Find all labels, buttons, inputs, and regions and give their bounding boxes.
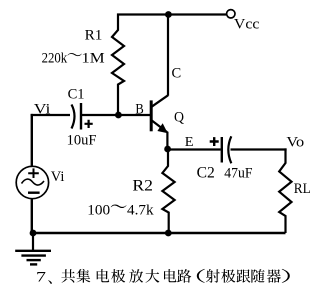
wire C2 to output corner bbox=[231, 148, 287, 150]
node junction dot R2 bottom bbox=[165, 230, 172, 237]
resistor RL (zigzag) bbox=[279, 163, 291, 233]
svg-text:RL: RL bbox=[294, 181, 311, 197]
svg-text:Vo: Vo bbox=[286, 135, 304, 151]
wire left rail lower (source to ground rail) bbox=[31, 199, 33, 233]
node junction dot base/R1 bbox=[115, 112, 122, 119]
svg-text:B: B bbox=[135, 101, 143, 117]
svg-text:R1: R1 bbox=[85, 27, 103, 44]
resistor R1 (zigzag) bbox=[112, 14, 124, 116]
AC source plus sign bbox=[28, 168, 39, 178]
wire input from source to C1 bbox=[31, 114, 70, 116]
tilde of 100~4.7k bbox=[111, 205, 127, 209]
wire collector vertical bbox=[167, 15, 169, 96]
tilde of 220k~1M bbox=[68, 53, 82, 56]
transistor Q1 base bar bbox=[150, 100, 153, 131]
value label 100~4.7k bbox=[87, 202, 154, 218]
svg-text:C1: C1 bbox=[68, 87, 85, 103]
svg-text:47uF: 47uF bbox=[224, 165, 252, 181]
wire bottom rail bbox=[32, 232, 286, 234]
Vcc terminal open circle bbox=[227, 10, 235, 18]
capacitor C1 curved plate bbox=[72, 105, 75, 129]
AC source minus sign bbox=[28, 191, 40, 193]
resistor R2 (zigzag) bbox=[162, 149, 174, 233]
transistor collector diagonal bbox=[152, 95, 169, 107]
svg-text:7: 7 bbox=[36, 269, 47, 285]
AC source sine wave bbox=[22, 179, 45, 185]
transistor emitter arrowhead bbox=[158, 124, 167, 132]
svg-text:Vcc: Vcc bbox=[234, 17, 260, 33]
node E junction dot bbox=[164, 146, 171, 153]
capacitor C2 curved plate bbox=[228, 136, 231, 163]
svg-text:100: 100 bbox=[87, 202, 110, 218]
wire C1 to base bbox=[82, 114, 151, 116]
wire left rail upper (C1 corner to source) bbox=[31, 114, 33, 166]
transistor emitter diagonal bbox=[152, 120, 168, 132]
svg-text:1M: 1M bbox=[81, 51, 104, 67]
wire top rail from R1 top to Vcc terminal bbox=[117, 13, 226, 15]
ground symbol bbox=[15, 233, 51, 264]
svg-text:Vi: Vi bbox=[34, 102, 51, 118]
capacitor C1 straight plate bbox=[80, 103, 82, 130]
plus sign of C1 polarity bbox=[85, 120, 93, 128]
node junction dot at collector/top rail bbox=[165, 11, 172, 18]
svg-text:4.7k: 4.7k bbox=[127, 202, 154, 218]
svg-text:C: C bbox=[172, 66, 182, 82]
wire emitter vertical to node E bbox=[166, 132, 168, 149]
AC source Vi circle bbox=[16, 166, 48, 198]
node junction dot bottom left bbox=[30, 230, 37, 237]
wire output corner down to RL bbox=[284, 148, 286, 163]
wire node E to C2 bbox=[168, 148, 221, 150]
capacitor C2 straight plate bbox=[221, 137, 223, 163]
svg-text:Q: Q bbox=[174, 110, 184, 126]
svg-text:10uF: 10uF bbox=[67, 132, 97, 148]
svg-text:R2: R2 bbox=[132, 177, 153, 194]
svg-text:C2: C2 bbox=[197, 165, 215, 182]
svg-text:E: E bbox=[185, 134, 194, 149]
svg-text:220k: 220k bbox=[42, 51, 68, 67]
svg-text:Vi: Vi bbox=[51, 169, 65, 185]
value label 220k~1M bbox=[42, 51, 105, 67]
caption text CJK 、共集电极放大电路（射极跟随器） bbox=[48, 269, 290, 284]
plus sign of C2 polarity bbox=[210, 137, 219, 146]
